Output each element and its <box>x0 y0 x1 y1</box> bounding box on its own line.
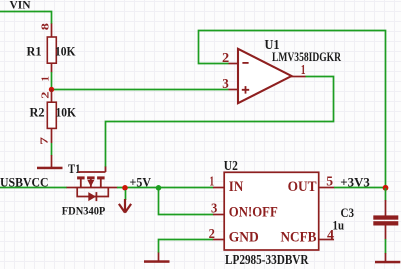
label R1 <box>27 44 42 59</box>
pin name NCFB <box>281 229 317 245</box>
value 10K (R1) <box>55 44 76 59</box>
pin U1-3 stub <box>229 89 238 91</box>
ground bar (below U2) <box>144 260 170 263</box>
wire op-amp output to T1 gate <box>106 77 334 168</box>
pin name IN <box>229 179 244 195</box>
svg-text:USBVCC: USBVCC <box>0 175 49 189</box>
resistor R1 <box>47 37 56 63</box>
svg-text:FDN340P: FDN340P <box>62 204 106 218</box>
pin number 8 <box>40 23 51 30</box>
svg-text:2: 2 <box>40 92 51 99</box>
pin number 2 (U1) <box>222 51 229 66</box>
pin U2-3 stub <box>213 214 225 216</box>
pin number 3 (U2) <box>211 201 217 216</box>
pin R1-8 stub <box>51 24 53 38</box>
svg-text:+5V: +5V <box>130 175 152 189</box>
capacitor C3 <box>373 215 398 225</box>
ground bar (below C3) <box>375 261 400 264</box>
junction node +3V3 <box>383 185 389 191</box>
regulator U2 box <box>224 172 319 250</box>
svg-text:10K: 10K <box>56 105 77 120</box>
ground pin stub (C3) <box>385 253 387 261</box>
svg-text:U2: U2 <box>224 158 238 173</box>
pin U2-2 stub <box>213 239 225 241</box>
junction node IN branch (green) <box>156 185 162 191</box>
wire divider node to op-amp pin 3 <box>52 72 229 90</box>
svg-text:5: 5 <box>326 175 333 190</box>
pin U2-5 stub <box>319 187 335 189</box>
pin U2-1 stub <box>213 187 225 189</box>
pin U2-4 stub (NCFB unconnected) <box>319 239 334 241</box>
pin number 7 <box>40 137 51 145</box>
junction node +5V <box>122 185 128 191</box>
label VIN <box>10 0 32 12</box>
pin number 4 (U2) <box>327 228 334 243</box>
svg-text:+3V3: +3V3 <box>340 176 370 190</box>
label U1 <box>265 37 280 52</box>
label C3 <box>341 206 355 220</box>
transistor T1 FDN340P (P-MOSFET) <box>67 167 118 202</box>
wire C3 to ground <box>385 239 387 254</box>
svg-text:3: 3 <box>222 77 229 92</box>
pin C3 top stub <box>385 200 387 216</box>
svg-text:1: 1 <box>301 63 306 78</box>
pin number 2 (U2) <box>209 227 215 242</box>
pin R1-1 stub <box>51 63 53 73</box>
label USBVCC <box>0 175 49 189</box>
wire op-amp pin2 feedback from +3V3 net <box>199 31 386 190</box>
svg-text:R2: R2 <box>30 105 45 120</box>
pin U1-1 stub <box>291 76 306 78</box>
pin number 2 (R2) <box>40 92 51 99</box>
op-amp U1 <box>238 49 292 103</box>
wire T1 drain to +5V node <box>117 187 156 189</box>
svg-text:1: 1 <box>209 175 214 190</box>
resistor R2 <box>47 102 56 128</box>
svg-text:8: 8 <box>40 23 51 30</box>
svg-text:2: 2 <box>222 51 229 66</box>
ground pin stub (R2) <box>51 155 53 167</box>
label R2 <box>30 105 45 120</box>
label +3V3 <box>340 176 370 190</box>
pin number 1 (U2) <box>209 175 214 190</box>
label T1 <box>68 162 81 176</box>
svg-text:3: 3 <box>211 201 217 216</box>
wire U2 GND to ground <box>159 240 214 254</box>
svg-text:VIN: VIN <box>10 0 32 12</box>
wire ON!OFF branch <box>159 188 214 215</box>
pin U1-2 stub <box>229 63 238 65</box>
pin R2-2 stub <box>51 90 53 103</box>
svg-text:1u: 1u <box>333 219 345 233</box>
svg-text:LMV358IDGKR: LMV358IDGKR <box>272 50 341 64</box>
pin name GND <box>229 229 259 245</box>
svg-text:NCFB: NCFB <box>281 229 317 245</box>
svg-text:10K: 10K <box>55 44 76 59</box>
svg-text:T1: T1 <box>68 162 81 176</box>
junction node divider <box>49 87 54 92</box>
wire OUT to +3V3 node <box>334 187 386 189</box>
pin C3 bottom stub <box>385 225 387 239</box>
svg-text:LP2985-33DBVR: LP2985-33DBVR <box>225 252 309 267</box>
value LP2985-33DBVR <box>225 252 309 267</box>
label +5V <box>130 175 152 189</box>
value 1u <box>333 219 345 233</box>
ground pin stub (U2) <box>158 253 160 262</box>
svg-text:ON!OFF: ON!OFF <box>229 205 278 221</box>
value LMV358IDGKR <box>272 50 341 64</box>
label U2 <box>224 158 238 173</box>
svg-text:7: 7 <box>40 137 51 145</box>
svg-text:1: 1 <box>40 76 51 82</box>
power arrow (+5V supply) <box>119 199 131 213</box>
pin name OUT <box>288 179 317 195</box>
pin number 1 (R1) <box>40 76 51 82</box>
wire VIN net: top-left horizontal and down to R1 <box>0 12 52 25</box>
value FDN340P <box>62 204 106 218</box>
pin number 1 (U1) <box>301 63 306 78</box>
pin number 5 (U2) <box>326 175 333 190</box>
ground bar (below R2) <box>37 167 63 170</box>
value 10K (R2) <box>56 105 77 120</box>
wire R2 to ground <box>51 143 53 156</box>
wire USBVCC to T1 <box>0 187 67 189</box>
svg-text:OUT: OUT <box>288 179 317 195</box>
pin name ON!OFF <box>229 205 278 221</box>
pin number 3 (U1) <box>222 77 229 92</box>
svg-text:R1: R1 <box>27 44 42 59</box>
wire +5V arrow branch <box>125 190 127 200</box>
wire +3V3 node down to C3 <box>385 188 387 201</box>
wire +5V node to U2 IN <box>156 187 214 189</box>
svg-text:GND: GND <box>229 229 259 245</box>
pin R2-7 stub <box>51 128 53 143</box>
svg-text:IN: IN <box>229 179 244 195</box>
